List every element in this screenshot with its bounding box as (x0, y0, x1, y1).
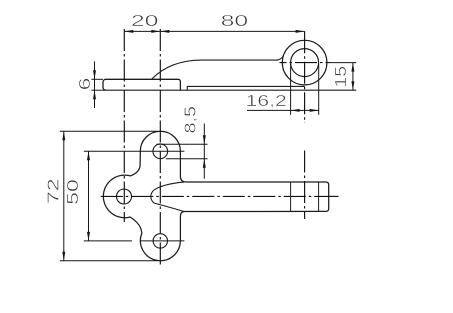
dimension 6 upper arrow (93, 70, 96, 79)
svg-text:16,2: 16,2 (246, 93, 287, 110)
dimension 72 bottom arrow (62, 252, 65, 261)
boss vertical centerline top view (304, 31, 306, 123)
svg-text:72: 72 (45, 178, 62, 204)
dimension 50 line (88, 151, 90, 241)
dimension 6 extension lines (91, 78, 103, 80)
boss hole circle (291, 49, 319, 77)
top hole horizontal centerline and 50 extension (84, 150, 185, 152)
dimension 80 line (160, 30, 304, 32)
dimension 15 bottom arrow (351, 81, 354, 90)
dimension 72 extension lines (60, 130, 158, 132)
dimension 72 line (63, 131, 65, 260)
dimension 20 line (124, 30, 160, 32)
dimension 16.2 right arrow (310, 109, 319, 112)
side view plate outline (103, 79, 180, 90)
dimension 8.5 lower arrow (203, 159, 206, 168)
dimension 8.5 line (203, 124, 205, 179)
dimension 8.5 extension lines (157, 143, 208, 145)
hole projection line left on arm (290, 182, 292, 211)
bottom hole horizontal centerline and 50 extension (84, 240, 132, 242)
dimension 20 right arrow (151, 30, 160, 33)
boss vertical centerline plan view (304, 151, 306, 220)
dimension 6 line (94, 61, 96, 108)
arm horizontal centerline plan view (101, 195, 331, 197)
plan top hole (153, 144, 168, 159)
svg-text:80: 80 (221, 13, 249, 30)
dimension 50 bottom arrow (87, 232, 90, 241)
dimension 16.2 left arrow (291, 109, 300, 112)
centerline through middle hole column (123, 29, 125, 222)
dimension 80 right arrow (296, 30, 305, 33)
side view bottom edge and 15 extension (103, 89, 356, 91)
dimension 15 top arrow (351, 63, 354, 72)
svg-text:50: 50 (65, 179, 82, 205)
dimension 80 left arrow (160, 30, 169, 33)
dimension 15 line (352, 63, 354, 91)
side view arm step (187, 86, 304, 90)
centerline through top and bottom holes column (159, 29, 161, 268)
dimension 6 lower arrow (93, 90, 96, 99)
boss outer circle (282, 40, 327, 85)
svg-text:6: 6 (77, 77, 94, 90)
dimension 16.2 extension lines (290, 64, 292, 115)
dimension 16.2 line (247, 109, 319, 111)
dimension 8.5 upper arrow (203, 135, 206, 144)
hole projection line right on arm (318, 182, 320, 211)
dimension 20 left arrow (124, 30, 133, 33)
svg-text:15: 15 (333, 66, 350, 88)
dimension 72 top arrow (62, 131, 65, 140)
svg-text:8,5: 8,5 (183, 106, 200, 134)
dimension 50 top arrow (87, 151, 90, 160)
plan arm root rounded nose (151, 182, 184, 211)
plan bottom hole (153, 234, 167, 248)
side view arm upper curve (152, 55, 284, 79)
plan view outline (103, 131, 328, 260)
boss horizontal centerline and 15 top extension (280, 62, 331, 64)
svg-text:20: 20 (131, 13, 159, 30)
plan middle hole (117, 189, 132, 204)
